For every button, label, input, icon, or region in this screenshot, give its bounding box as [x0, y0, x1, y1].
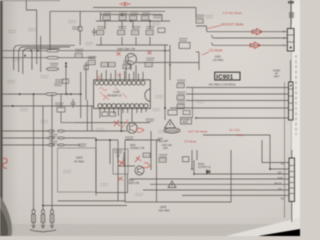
- wire top-right triple to CN901: [206, 26, 287, 32]
- svg-text:DW10: DW10: [198, 164, 205, 166]
- svg-text:CD Mode: CD Mode: [209, 49, 223, 53]
- IC901 label box: [215, 72, 240, 81]
- resistor R908 bus row A: [103, 16, 110, 20]
- CN901 connector top right: [283, 29, 294, 52]
- red arrow on wire 2: [250, 42, 261, 48]
- wire vertical x=80 branch: [79, 11, 81, 45]
- wire bundle arc 1: [14, 45, 75, 70]
- red marks near Q902: [114, 120, 120, 126]
- wire left bus y=106: [2, 105, 94, 107]
- svg-text:B/OUT: B/OUT: [275, 184, 283, 186]
- tiny labels between connector rows: [49, 134, 58, 137]
- svg-text:10W: 10W: [163, 148, 169, 150]
- svg-text:POWER: POWER: [181, 119, 190, 121]
- wire verticals to bottom connectors: [33, 94, 35, 210]
- diode DW10: [207, 170, 210, 174]
- wire mid-right bus to CN902: [186, 87, 289, 89]
- svg-text:+5V: +5V: [278, 189, 283, 191]
- wire v below CN903: [291, 150, 293, 222]
- svg-text:C914 100: C914 100: [162, 145, 173, 147]
- svg-text:ACT OK Mode: ACT OK Mode: [188, 130, 208, 134]
- red marks near Q903: [119, 160, 125, 166]
- dashed page edge line: [295, 55, 297, 135]
- svg-text:-30V: -30V: [277, 173, 282, 175]
- bottom connector terminals: [30, 210, 56, 233]
- svg-text:MV REG CONTROL: MV REG CONTROL: [209, 82, 237, 86]
- wire transistor q-top legs: [126, 65, 136, 80]
- svg-text:GM02 2SB?-LTB: GM02 2SB?-LTB: [117, 48, 135, 51]
- junction dots: [33, 93, 35, 95]
- resistor below IC 2: [110, 112, 116, 116]
- svg-text:4.17 DC Mode: 4.17 DC Mode: [223, 11, 243, 15]
- IC001 top pin row: [95, 81, 145, 85]
- wire lower-left rows: [2, 130, 127, 132]
- svg-text:O: O: [283, 37, 285, 40]
- wire stubs above IC: [97, 70, 143, 81]
- red line through Q902: [122, 120, 129, 129]
- inductor L913: [130, 16, 137, 20]
- resistor R909 row B: [97, 31, 104, 35]
- POWER RGB label box: [181, 118, 192, 125]
- wire q901 box corner: [136, 26, 207, 70]
- CN902 connector mid right: [273, 71, 293, 121]
- text C918 470u: [54, 83, 63, 86]
- text C92x: [125, 137, 134, 140]
- red scribbles on IC: [97, 73, 127, 100]
- wire vertical x=80.7 IC left: [80, 72, 82, 118]
- component box mid: [168, 110, 177, 115]
- wire h from left y=50.7: [2, 50, 95, 52]
- capacitor C916: [123, 61, 132, 64]
- capacitor C910 row B: [118, 31, 125, 35]
- page edge vertical top right: [290, 0, 292, 24]
- node dots x=66: [65, 63, 67, 65]
- wire long vertical x=284.5: [284, 82, 286, 218]
- terminal 3: [50, 210, 53, 214]
- svg-text:CN902: CN902: [273, 71, 281, 73]
- wire h from left y=57.7: [2, 57, 95, 59]
- transistor Q903 lower: [135, 166, 144, 175]
- svg-text:Q903: Q903: [76, 156, 83, 160]
- capacitor C410 small: [92, 28, 97, 36]
- bottom-left dark corner shadow: [0, 196, 12, 236]
- wire top-left vertical: [25, 0, 27, 10]
- wire vertical x=170: [169, 45, 171, 80]
- resistor R912: [101, 63, 108, 67]
- wire left bus y=94.1: [2, 93, 81, 95]
- connector pair symbol y=94.1: [45, 93, 57, 96]
- red annotation bowtie top center: [119, 2, 131, 5]
- component column D905 etc: [177, 84, 184, 88]
- top edge sliver: [0, 0, 60, 1]
- IC001 bottom pin row: [98, 104, 148, 108]
- warning triangle component: [165, 120, 176, 129]
- wire vertical x=100: [99, 12, 101, 21]
- component cluster right of q901 corner: [196, 19, 203, 23]
- svg-text:ADJUST Mode: ADJUST Mode: [221, 22, 244, 26]
- red marks bottom center: [135, 156, 141, 162]
- wire y=122.6 extension: [61, 122, 75, 124]
- wire stubs below IC: [92, 106, 146, 131]
- connector pair y=69: [46, 68, 59, 71]
- wire top-left corner: [26, 10, 36, 64]
- electrolytic cap oval: [164, 128, 180, 133]
- resistor R921: [183, 111, 190, 115]
- capacitor C913: [119, 16, 126, 20]
- transistor Q901 top-center: [117, 48, 137, 65]
- page right edge light strip: [292, 0, 300, 236]
- resistor R915: [84, 65, 88, 69]
- wire vertical x=50: [49, 11, 51, 50]
- wire vertical x=66: [65, 62, 67, 94]
- wire bus y=45: [96, 44, 168, 46]
- resistor R917: [145, 63, 152, 67]
- wire bus y=21: [96, 20, 170, 22]
- svg-text:NC: NC: [281, 199, 285, 201]
- wire vertical x=40.7: [40, 36, 42, 72]
- wire top main bus y=7.5: [93, 7, 196, 9]
- red marks around Q901: [117, 52, 121, 56]
- svg-text:IC001: IC001: [113, 90, 120, 94]
- sub-board box Q903: [58, 148, 96, 192]
- svg-text:2SB?-LTB: 2SB?-LTB: [128, 182, 139, 185]
- wire drops row2: [101, 37, 150, 45]
- svg-text:OUTPUT 13: OUTPUT 13: [198, 167, 211, 169]
- svg-text:R: R: [283, 31, 285, 34]
- text D911 1N4148: [50, 63, 59, 66]
- capacitor box C inside: [113, 149, 128, 174]
- svg-text:-30V REG: -30V REG: [158, 208, 170, 212]
- svg-text:RGB: RGB: [183, 122, 188, 124]
- bottom right light page corner: [226, 218, 300, 237]
- transistor Q902 left-mid: [127, 119, 154, 134]
- svg-text:NC: NC: [281, 164, 285, 166]
- connector ovals rows y=131/138/145: [47, 130, 65, 146]
- wire verticals rising bottom-right: [192, 150, 197, 174]
- red loops left edge: [3, 158, 8, 168]
- svg-text:4P: 4P: [275, 74, 278, 76]
- wire v x=61 stub: [60, 94, 62, 123]
- capacitor C915: [71, 99, 76, 108]
- resistor row B4: [146, 31, 153, 35]
- wire top right corner cluster: [290, 24, 292, 29]
- wire bus y=14.5: [100, 14, 162, 16]
- wire x=151 vertical: [150, 131, 152, 170]
- box W904: [183, 157, 189, 162]
- resistor row A4: [142, 16, 149, 20]
- text D906 second: [78, 144, 87, 147]
- svg-text:-9V REG: -9V REG: [74, 159, 85, 163]
- connector pair symbols left y=50.5: [46, 49, 59, 59]
- svg-text:D906: D906: [130, 145, 136, 147]
- svg-text:180µ ADP: 180µ ADP: [157, 140, 168, 143]
- wire bottom-right bus: [270, 168, 289, 170]
- svg-text:Q953: Q953: [160, 205, 167, 209]
- resistor on x=80 vertical: [78, 27, 82, 31]
- svg-text:+5V REG: +5V REG: [213, 58, 224, 62]
- svg-text:WHT: WHT: [274, 77, 280, 79]
- wire drops from bus: [105, 15, 162, 30]
- junction dot: [120, 130, 122, 132]
- wire bundle arc 2: [19, 47, 70, 72]
- big block outline bottom: [125, 140, 231, 202]
- wire vertical x=165: [164, 45, 166, 120]
- wire bottom h y=205.5: [43, 174, 128, 206]
- component cluster row C left: [75, 54, 82, 58]
- CN903 connector bottom right: [275, 158, 295, 202]
- svg-text:IC901: IC901: [216, 75, 233, 81]
- wire v x=31.9: [31, 51, 33, 70]
- wire nc stub: [262, 140, 289, 163]
- wire y=166: [118, 165, 135, 167]
- scanner dark left edge: [0, 0, 3, 236]
- red mark near box: [118, 177, 123, 182]
- svg-text:TO Mode: TO Mode: [184, 139, 197, 143]
- svg-text:HZS9B-2-LTB: HZS9B-2-LTB: [130, 148, 145, 150]
- wire vertical x=86: [85, 62, 87, 100]
- wire q902 area: [96, 138, 118, 201]
- resistor R916: [63, 79, 69, 83]
- wire v above CN902: [290, 60, 292, 82]
- wire y=50.7 upper mid: [93, 50, 170, 52]
- red arrow on wire 1: [252, 29, 263, 35]
- capacitor C912 4700u: [179, 38, 190, 49]
- wire x=87 vertical: [86, 100, 88, 131]
- svg-text:GND: GND: [278, 178, 283, 180]
- wire bundle arc 3: [23, 49, 60, 75]
- wire row y=122.6: [75, 122, 150, 124]
- svg-text:41.7 DC: 41.7 DC: [229, 128, 241, 132]
- wire right area top corner: [195, 8, 197, 19]
- curly brace: [30, 230, 56, 233]
- terminal 2: [41, 210, 44, 214]
- zener triangle lower: [168, 181, 176, 188]
- resistor R920: [57, 108, 65, 113]
- terminal 1: [32, 210, 35, 214]
- resistor below IC 1: [102, 112, 108, 116]
- IC001 main IC body: [94, 80, 151, 109]
- wire horizontal y=11.3: [50, 10, 165, 12]
- svg-text:MV58MP-18: MV58MP-18: [108, 94, 122, 97]
- capacitor C917: [108, 63, 115, 67]
- svg-text:Mode: Mode: [237, 133, 245, 137]
- small caps cluster x=153: [153, 15, 162, 18]
- small boxes bottom center cluster: [143, 153, 150, 157]
- wire v x=192.5: [192, 88, 194, 119]
- wire h y=135 to right: [203, 135, 270, 169]
- labels above row A: [103, 11, 112, 14]
- red leader line: [207, 26, 221, 29]
- capacitor row B3: [132, 31, 139, 35]
